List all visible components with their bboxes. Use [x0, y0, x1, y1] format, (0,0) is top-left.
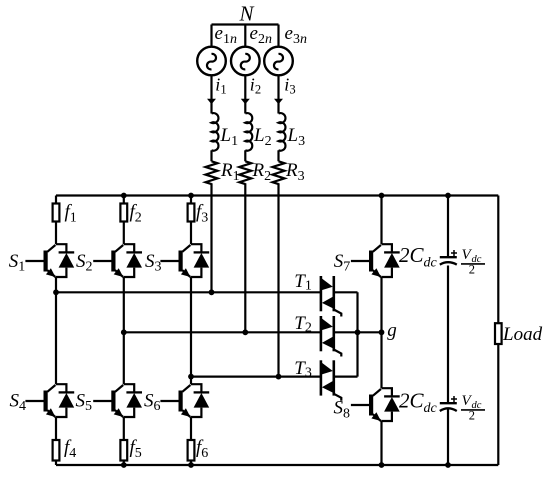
svg-text:L1: L1 — [220, 125, 239, 149]
AC source e3n — [264, 47, 293, 76]
wire between capacitors — [447, 266, 449, 404]
label Vdc/2 (upper) — [461, 247, 485, 277]
svg-text:e3n: e3n — [285, 23, 307, 47]
leg 3 wire fuse to S3 — [190, 222, 192, 245]
current arrow i1 — [207, 99, 216, 105]
svg-text:2: 2 — [469, 409, 475, 423]
wire phase 3 down to node c — [277, 183, 279, 376]
fuse f2 — [120, 204, 127, 222]
junction capacitor branch / bottom rail — [445, 462, 451, 468]
svg-text:S5: S5 — [76, 390, 93, 414]
wire node a (leg1 midpoint to T1) — [56, 291, 321, 293]
triac T3 — [321, 360, 341, 401]
label Vdc/2 (lower) — [461, 393, 485, 423]
junction leg2 midpoint node b — [121, 329, 127, 335]
polarity + (upper) — [451, 250, 457, 256]
svg-text:Load: Load — [502, 324, 543, 345]
junction S8 leg / bottom rail — [379, 462, 385, 468]
svg-text:i1: i1 — [215, 75, 226, 97]
wire rail to load — [497, 196, 499, 324]
wire capacitor to bottom rail — [447, 410, 449, 466]
fuse f6 — [188, 440, 195, 461]
transistor S1 (IGBT with diode) — [25, 244, 74, 277]
wire inductor to resistor R2 — [244, 150, 246, 161]
wire S8 to bottom rail — [380, 421, 382, 465]
svg-text:i2: i2 — [250, 75, 261, 97]
AC source e2n — [231, 47, 260, 76]
wire source to inductor L2 — [244, 75, 246, 113]
load resistor — [495, 323, 502, 344]
resistor R3 — [273, 161, 285, 184]
transistor S3 (IGBT with diode) — [160, 244, 209, 277]
leg 2 wire fuse to S2 — [123, 222, 125, 245]
AC source e1n — [197, 47, 226, 76]
junction leg1 midpoint node a — [53, 289, 59, 295]
junction phase1 / node a — [209, 289, 215, 295]
junction S7 leg / top rail — [379, 193, 385, 199]
svg-text:N: N — [239, 2, 255, 26]
transistor S6 (IGBT with diode) — [160, 384, 209, 417]
transistor S5 (IGBT with diode) — [93, 384, 142, 417]
leg 1 wire fuse to S1 — [55, 222, 57, 245]
junction phase3 / node c — [276, 374, 282, 380]
current arrow i2 — [241, 99, 250, 105]
current arrow i3 — [274, 99, 283, 105]
capacitor 2Cdc (lower) — [440, 403, 457, 411]
junction leg2 / bottom rail — [121, 462, 127, 468]
svg-text:S2: S2 — [76, 251, 93, 275]
junction leg3 / bottom rail — [188, 462, 194, 468]
neutral bus wire — [212, 23, 279, 25]
triac T2 — [321, 316, 341, 357]
svg-text:L2: L2 — [253, 125, 272, 149]
svg-text:R2: R2 — [252, 160, 272, 184]
leg 1 wire S1 to S4 — [55, 277, 57, 384]
wire T2 output to node g — [334, 331, 382, 333]
junction capacitor branch / top rail — [445, 193, 451, 199]
wire T1 output — [334, 291, 358, 293]
leg wire S4 to fuse f4 — [55, 417, 57, 440]
junction phase2 / node b — [242, 329, 248, 335]
wire inductor to resistor R1 — [210, 150, 212, 161]
transistor S7 (IGBT with diode) — [351, 244, 400, 277]
leg wire fuse f4 to bottom rail — [55, 461, 57, 466]
svg-text:T2: T2 — [294, 313, 312, 336]
leg 2 wire rail to fuse — [123, 196, 125, 204]
triac T1 — [321, 276, 341, 317]
svg-text:2Cdc: 2Cdc — [399, 389, 438, 417]
positive DC rail (top) — [56, 194, 498, 196]
wire node b (leg2 midpoint to T2) — [124, 331, 321, 333]
polarity + (lower) — [451, 396, 457, 402]
wire T3 output — [334, 376, 358, 378]
svg-text:S1: S1 — [9, 251, 26, 275]
transistor S4 (IGBT with diode) — [25, 384, 74, 417]
svg-text:2Cdc: 2Cdc — [399, 243, 438, 271]
svg-text:S8: S8 — [334, 398, 351, 422]
leg 3 wire S3 to S6 — [190, 277, 192, 384]
junction leg3 / top rail — [188, 193, 194, 199]
fuse f5 — [120, 440, 127, 461]
wire source to inductor L3 — [277, 75, 279, 113]
resistor R1 — [206, 161, 218, 184]
svg-text:f5: f5 — [130, 437, 142, 461]
svg-text:S6: S6 — [144, 390, 161, 414]
capacitor 2Cdc (upper) — [440, 257, 457, 264]
resistor R2 — [239, 161, 251, 184]
wire triac common vertical — [356, 292, 358, 376]
wire S7 to S8 through node g — [380, 277, 382, 388]
negative DC rail (bottom) — [56, 464, 498, 466]
svg-text:e2n: e2n — [250, 23, 272, 47]
wire node c (leg3 midpoint to T3) — [191, 376, 321, 378]
wire phase 1 down to node a — [210, 183, 212, 292]
wire inductor to resistor R3 — [277, 150, 279, 161]
inductor L2 — [245, 113, 252, 151]
svg-text:T3: T3 — [294, 358, 312, 381]
svg-text:T1: T1 — [294, 271, 312, 294]
junction triac common / node g line — [355, 329, 361, 335]
leg 2 wire S2 to S5 — [123, 277, 125, 384]
svg-text:e1n: e1n — [215, 23, 237, 47]
svg-text:f2: f2 — [130, 202, 142, 226]
inductor L1 — [212, 113, 219, 151]
junction leg3 midpoint node c — [188, 374, 194, 380]
wire bus to source e3n — [277, 25, 279, 47]
leg wire S6 to fuse f6 — [190, 417, 192, 440]
leg 1 wire rail to fuse — [55, 196, 57, 204]
transistor S2 (IGBT with diode) — [93, 244, 142, 277]
junction node g — [379, 329, 385, 335]
wire phase 2 down to node b — [244, 183, 246, 332]
svg-text:2: 2 — [469, 263, 475, 277]
svg-text:R1: R1 — [220, 160, 240, 184]
svg-text:S4: S4 — [10, 390, 27, 414]
svg-text:S3: S3 — [145, 251, 162, 275]
junction leg2 / top rail — [121, 193, 127, 199]
svg-text:f4: f4 — [64, 437, 76, 461]
transistor S8 (IGBT with diode) — [351, 388, 400, 421]
wire source to inductor L1 — [210, 75, 212, 113]
wire rail to capacitor 2Cdc (upper) — [447, 196, 449, 258]
wire bus to source e1n — [210, 25, 212, 47]
svg-text:R3: R3 — [285, 160, 305, 184]
svg-text:i3: i3 — [284, 75, 295, 97]
leg wire fuse f5 to bottom rail — [123, 461, 125, 466]
svg-text:L3: L3 — [287, 125, 306, 149]
inductor L3 — [279, 113, 286, 151]
fuse f4 — [53, 440, 60, 461]
svg-text:f6: f6 — [196, 437, 208, 461]
fuse f3 — [188, 204, 195, 222]
svg-text:f1: f1 — [65, 202, 77, 226]
leg wire S5 to fuse f5 — [123, 417, 125, 440]
fuse f1 — [53, 204, 60, 222]
wire bus to source e2n — [244, 25, 246, 47]
svg-text:g: g — [387, 320, 397, 341]
svg-text:S7: S7 — [334, 251, 351, 275]
wire rail to S7 — [380, 196, 382, 245]
wire load to bottom rail — [497, 344, 499, 465]
svg-text:f3: f3 — [196, 202, 208, 226]
leg 3 wire rail to fuse — [190, 196, 192, 204]
leg wire fuse f6 to bottom rail — [190, 461, 192, 466]
